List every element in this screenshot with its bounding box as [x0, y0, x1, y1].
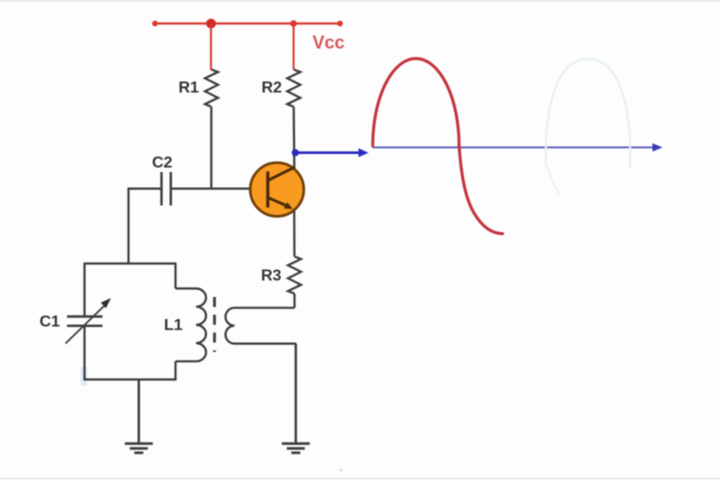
capacitor C2 [160, 172, 162, 206]
resistor R1 [205, 70, 218, 107]
wire emitter to R3 [293, 210, 295, 257]
ghost sine cycle [546, 59, 630, 168]
wire rail to R2 [293, 24, 295, 70]
node OUT dot [292, 149, 299, 156]
coil bottom jog [176, 360, 197, 362]
svg-text:C1: C1 [40, 314, 61, 331]
wire secondary to ground [295, 344, 297, 443]
svg-text:L1: L1 [164, 317, 183, 334]
resistor R3 [288, 257, 301, 294]
C1 adjust arrow [66, 306, 105, 344]
tank right wire upper [174, 263, 176, 289]
wire R3 to secondary top [293, 294, 295, 308]
tank top wire [85, 262, 176, 264]
wire tank to ground [138, 380, 140, 444]
transistor Q1 body [250, 163, 304, 217]
rail junction dot node R2 [290, 20, 297, 27]
wire C2-left down to tank [127, 189, 129, 264]
tank left wire lower [83, 326, 85, 381]
wire rail to R1 [210, 24, 212, 71]
transformer core dashed [213, 297, 216, 352]
tank bottom wire [85, 378, 176, 380]
transistor emitter arrowhead [284, 202, 293, 209]
ground 2 [282, 442, 310, 445]
transistor collector stroke [268, 167, 295, 181]
output sine wave [373, 59, 503, 234]
rail right terminal dot [337, 21, 343, 27]
waveform axis [373, 146, 655, 148]
tank right wire lower [174, 361, 176, 380]
transistor emitter stroke [268, 198, 288, 207]
tank left wire upper [83, 263, 85, 317]
wire R2 to collector [293, 107, 296, 168]
svg-text:Vcc: Vcc [313, 33, 345, 53]
secondary bottom wire [235, 343, 297, 345]
variable capacitor C1 plates [67, 315, 103, 317]
wire R1 to base node [210, 107, 212, 190]
ground 1 [125, 442, 153, 445]
wire tank to C2 [128, 188, 162, 190]
axis arrowhead [653, 143, 663, 151]
coil top jog [176, 287, 197, 289]
rail left terminal dot [152, 21, 158, 27]
resistor R2 [287, 70, 300, 107]
rail junction dot node R1 [206, 19, 216, 29]
wire C2 to base [171, 188, 251, 190]
svg-text:R3: R3 [261, 268, 282, 285]
svg-text:C2: C2 [152, 155, 173, 172]
svg-text:R2: R2 [262, 80, 283, 97]
transistor base bar [266, 172, 269, 208]
secondary top wire [235, 307, 295, 309]
output arrow short [295, 151, 361, 154]
svg-text:R1: R1 [179, 80, 200, 97]
inductor L1 primary coil [196, 288, 206, 361]
secondary coil [225, 308, 234, 344]
Vcc rail wire [155, 22, 340, 24]
